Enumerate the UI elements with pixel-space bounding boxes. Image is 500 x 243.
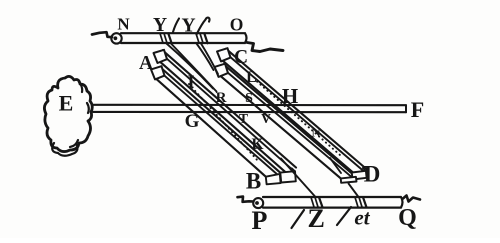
label et xyxy=(354,206,370,230)
thread pair from top tube into left assembly xyxy=(167,44,214,89)
right assembly right foot at D xyxy=(352,171,367,180)
left lower ruler bottom edge xyxy=(155,77,266,176)
svg-text:Q: Q xyxy=(398,205,417,231)
label Y2 xyxy=(181,16,195,37)
svg-text:F: F xyxy=(411,97,424,122)
svg-text:D: D xyxy=(364,162,381,187)
svg-text:E: E xyxy=(59,91,74,116)
dotted thread through right assembly xyxy=(257,82,340,156)
right upper ruler end cap at C xyxy=(217,48,231,61)
thread pair from top tube into right assembly xyxy=(197,44,214,71)
top tube left end opening xyxy=(111,33,121,43)
svg-text:P: P xyxy=(252,206,268,235)
label Q xyxy=(398,205,417,231)
label V below rod xyxy=(261,111,271,126)
label F xyxy=(411,97,424,122)
label D xyxy=(364,162,381,187)
label R above rod xyxy=(216,90,227,106)
top tube NO body xyxy=(121,33,247,43)
label O xyxy=(230,15,244,35)
thread Y2 cut slash with hook above tube xyxy=(197,18,210,35)
cloud xyxy=(44,76,92,151)
label P xyxy=(252,206,268,235)
svg-text:R: R xyxy=(216,90,227,106)
right upper ruler bottom edge xyxy=(222,60,353,172)
svg-text:N: N xyxy=(311,126,320,140)
label T below rod xyxy=(239,111,248,126)
right upper ruler top edge xyxy=(226,49,367,170)
right lower ruler top edge xyxy=(224,64,356,177)
left lower ruler end cap xyxy=(151,66,165,79)
svg-text:L: L xyxy=(246,69,257,86)
svg-text:B: B xyxy=(246,169,261,194)
label C xyxy=(234,47,248,68)
right lower ruler end cap xyxy=(215,64,229,77)
svg-text:Z: Z xyxy=(308,204,325,233)
label I on left upper ruler xyxy=(187,72,194,92)
label B xyxy=(246,169,261,194)
left assembly right foot at B xyxy=(280,171,296,182)
bottom tube left end opening xyxy=(253,198,263,208)
left lower ruler top edge xyxy=(160,67,282,174)
wire squiggle at right of bottom tube xyxy=(403,196,420,202)
label S above rod xyxy=(245,91,253,106)
thread wrap band on bottom tube at Z xyxy=(311,197,318,207)
svg-text:N: N xyxy=(117,14,130,33)
label L on right upper ruler xyxy=(246,69,257,86)
thread wrap band on bottom tube at et xyxy=(355,197,362,207)
svg-text:H: H xyxy=(282,84,298,108)
label G below rod xyxy=(185,111,200,132)
rod right end cap xyxy=(405,105,407,112)
svg-text:G: G xyxy=(185,111,200,132)
svg-text:S: S xyxy=(245,91,253,106)
thread end slash below tube left of Z xyxy=(292,210,305,228)
svg-text:K: K xyxy=(251,136,263,153)
svg-text:O: O xyxy=(230,15,244,35)
left assembly left foot at B xyxy=(266,174,281,184)
left upper ruler end cap at A xyxy=(154,50,168,63)
svg-text:V: V xyxy=(261,111,271,126)
svg-text:T: T xyxy=(239,111,248,126)
bottom tube PQ body xyxy=(263,197,403,208)
thread from right assembly to bottom tube at et xyxy=(330,158,359,197)
svg-text:et: et xyxy=(354,206,370,230)
wire squiggle at right of top tube xyxy=(247,43,283,52)
right upper ruler ridge xyxy=(224,52,363,171)
wire squiggle at left of bottom tube xyxy=(238,197,254,202)
label N xyxy=(117,14,130,33)
label H above rod xyxy=(282,84,298,108)
svg-text:Y: Y xyxy=(153,15,167,36)
label K on left lower ruler xyxy=(251,136,263,153)
thread Y1 cut slash above tube xyxy=(173,19,179,33)
thread from left assembly to bottom tube at Z xyxy=(281,159,316,198)
dotted thread through left assembly xyxy=(189,84,258,161)
label Z xyxy=(308,204,325,233)
svg-text:I: I xyxy=(187,72,194,92)
label A xyxy=(139,53,153,74)
left lower ruler ridge xyxy=(158,70,278,175)
label E xyxy=(59,91,74,116)
left upper ruler top edge xyxy=(163,50,297,167)
thread Y2 wrap band on top tube xyxy=(196,33,203,43)
rod bottom edge xyxy=(93,111,406,113)
right assembly left foot at D xyxy=(341,177,357,183)
left upper ruler bottom edge xyxy=(159,60,286,172)
wire squiggle at left of top tube xyxy=(92,32,112,37)
svg-text:Y: Y xyxy=(181,16,195,37)
label N on right dotted thread xyxy=(311,126,320,140)
right lower ruler bottom edge xyxy=(220,75,341,178)
rod from cloud to F top edge xyxy=(92,104,406,106)
label Y1 xyxy=(153,15,167,36)
thread Y1 wrap band on top tube xyxy=(160,33,167,43)
left upper ruler ridge xyxy=(161,53,293,170)
cloud inner arcs xyxy=(52,82,89,156)
thread end slash below tube left of et xyxy=(337,207,351,225)
right lower ruler ridge xyxy=(222,68,352,178)
